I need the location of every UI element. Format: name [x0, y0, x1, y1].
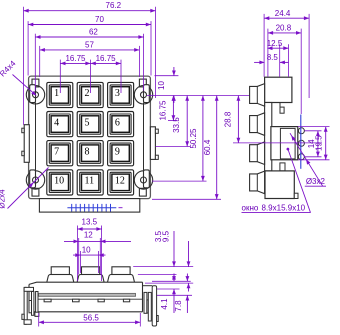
svg-text:16.75: 16.75 [158, 100, 167, 121]
bottom view notch 1 [44, 299, 51, 302]
key 6 [108, 112, 134, 137]
dimension 12 [64, 230, 131, 243]
dimension 16.75 (vertical) [158, 96, 175, 121]
bottom view notch 2 [73, 299, 80, 302]
dimension 20.8 (horizontal) [268, 24, 301, 35]
dimension 50.25 (vertical) [189, 96, 205, 182]
side view small tab below cap [280, 103, 284, 114]
svg-text:50.25: 50.25 [189, 128, 198, 149]
pin-row reference line (c2) [233, 142, 322, 144]
bottom view right step [147, 300, 149, 313]
label diameter 3x2 with leader [290, 133, 326, 186]
bezel-top extension line (right) [155, 75, 179, 77]
svg-text:57: 57 [85, 41, 94, 50]
bottom view left bracket step [29, 301, 32, 313]
label diameter 2x4 [0, 189, 7, 209]
bottom view key cap right [108, 267, 135, 283]
bottom view dimension extension lines [77, 226, 101, 282]
key 7 [47, 141, 73, 166]
side view dimension extension lines (top) [264, 14, 309, 114]
dimension 56.5 (horizontal) [39, 314, 141, 325]
label R4x4 [0, 59, 18, 79]
pin circle 2 [298, 140, 304, 146]
front view top-right tab [139, 79, 146, 87]
bottom view inner band [39, 293, 136, 296]
svg-text:12.5: 12.5 [267, 39, 283, 48]
key 1 [47, 82, 73, 107]
band bottom reference line [157, 294, 192, 296]
dimension 10 (cap top width) [73, 245, 106, 257]
left side connector protrusion [24, 125, 29, 163]
dimension 62 (horizontal) [35, 28, 143, 39]
bottom view notch 4 [123, 299, 129, 302]
front view bezel outline [29, 76, 151, 199]
strip right extension line [139, 313, 141, 327]
svg-text:9.5: 9.5 [161, 230, 170, 242]
svg-text:16.75: 16.75 [96, 54, 117, 63]
bottom view body bottom edge [29, 311, 143, 313]
dimension 13.5 (horizontal) [77, 218, 101, 231]
pin1 reference line [304, 130, 321, 132]
key 12 [108, 170, 134, 195]
svg-text:24.4: 24.4 [275, 9, 291, 18]
bottom view inner line [36, 298, 143, 300]
bracket top reference line [152, 280, 191, 282]
key 10 [47, 170, 73, 195]
dimension 12.5 (horizontal) [267, 39, 289, 50]
right protrusion upper nub [155, 129, 158, 133]
bottom view left bracket top arm [24, 287, 33, 291]
left protrusion upper nub [22, 128, 24, 133]
side view top cap [265, 77, 292, 102]
dimension 8.5 [254, 53, 288, 64]
svg-text:Ø3x2: Ø3x2 [306, 177, 326, 186]
bottom view right bar 1 [144, 292, 147, 313]
bottom view right bracket plate [152, 286, 156, 326]
bottom view key cap left [47, 267, 74, 283]
cap step reference line [138, 273, 177, 275]
pin circle 3 [298, 154, 304, 160]
svg-text:Ø2x4: Ø2x4 [0, 189, 7, 209]
mounting ear top-right [134, 85, 152, 104]
front view bottom-left tab [32, 188, 39, 196]
side view button row2 [250, 113, 265, 136]
row3 reference line (right) [156, 146, 191, 148]
bottom view left bar 2 foot [35, 312, 39, 316]
svg-text:28.8: 28.8 [223, 111, 232, 127]
bottom view left bracket nub [22, 314, 24, 319]
side view connector block [271, 127, 298, 160]
bottom view body right edge [142, 282, 144, 312]
label window 8.9x15.9x10 with leader [242, 148, 311, 213]
bezel-bottom reference line (right) [152, 198, 221, 200]
dimension 76.2 (horizontal) [24, 1, 156, 12]
side view bottom-right tab [294, 193, 298, 198]
front view bottom connector strip [39, 199, 139, 213]
pin centerline (blue) [300, 115, 302, 169]
bottom view top edge [29, 282, 143, 284]
svg-text:16.75: 16.75 [65, 54, 86, 63]
hole-center extension line (row1) [147, 95, 250, 97]
svg-text:19.5: 19.5 [315, 135, 324, 151]
bottom view left bar 1 [32, 292, 34, 316]
dimension 16.75 16.75 (key pitch) [60, 54, 121, 65]
bottom view notch 3 [98, 299, 104, 302]
svg-text:20.8: 20.8 [276, 24, 292, 33]
front view top-left tab [32, 79, 39, 87]
bottom view left bar 2 [36, 292, 38, 317]
bottom view left bracket plate [24, 287, 27, 324]
svg-text:8: 8 [85, 146, 90, 157]
dimension 7.8 [174, 274, 189, 314]
svg-text:окно: окно [242, 203, 259, 212]
dimension 28.8 (vertical) [223, 96, 240, 143]
svg-text:11: 11 [85, 176, 95, 187]
cap top reference line [133, 266, 193, 268]
svg-text:76.2: 76.2 [106, 1, 122, 10]
dimension 57 (horizontal) [40, 41, 140, 52]
svg-text:7: 7 [54, 146, 59, 157]
svg-text:4.1: 4.1 [160, 298, 169, 310]
bottom view bridge to right bracket [143, 285, 153, 287]
side view step between blocks [280, 163, 285, 171]
svg-text:10: 10 [82, 245, 91, 254]
left protrusion lower nub [22, 151, 24, 156]
right side protrusion [150, 127, 155, 160]
svg-text:8.9x15.9x10: 8.9x15.9x10 [262, 203, 306, 212]
svg-text:7.8: 7.8 [174, 300, 183, 312]
svg-text:62: 62 [89, 28, 98, 37]
svg-text:10: 10 [54, 176, 64, 187]
dimension 9.5 [161, 230, 190, 291]
front view dimension extension lines (top) [24, 7, 156, 125]
key 11 [77, 170, 103, 195]
bottom view left bracket bottom arm [24, 320, 31, 325]
svg-text:56.5: 56.5 [83, 314, 99, 323]
key 5 [77, 112, 103, 137]
dimension 4.1 [160, 274, 176, 314]
leader for diameter 2x4 [8, 168, 49, 209]
dimension 70 (horizontal) [28, 15, 151, 26]
svg-text:10: 10 [157, 81, 166, 90]
svg-text:6: 6 [115, 117, 120, 128]
strip left extension line [38, 313, 40, 327]
key 4 [47, 112, 73, 137]
svg-text:12: 12 [84, 230, 93, 239]
front view bottom-right tab [139, 188, 146, 196]
svg-text:5: 5 [85, 117, 90, 128]
mounting ear bottom-left [26, 170, 44, 189]
connector contacts (blue hatch) [67, 204, 122, 212]
bottom view body left edge [28, 284, 30, 311]
bottom view right bar 2 [148, 292, 151, 321]
dimension 14 (vertical) [307, 131, 320, 157]
side view button row3 [250, 142, 265, 165]
dimension 3.5 [154, 230, 176, 281]
left case inner line [35, 103, 37, 172]
case top reference line [145, 282, 193, 284]
key 3 [108, 82, 134, 107]
svg-text:12: 12 [115, 176, 125, 187]
mounting ear bottom-right [134, 170, 152, 189]
dimension 10 (bezel top to row1) [157, 67, 176, 103]
dimension 19.5 (vertical) [315, 127, 328, 160]
mounting ear top-left [26, 85, 44, 104]
dimension 33.5 (vertical) [172, 96, 189, 147]
block bottom reference line [298, 159, 330, 161]
side view window [280, 128, 295, 159]
pin3 reference line [304, 156, 321, 158]
right case inner line [143, 103, 145, 172]
key 2 [77, 82, 103, 107]
block top reference line [298, 126, 330, 128]
side view body slab [265, 103, 272, 171]
svg-text:3: 3 [115, 88, 120, 99]
row4 reference line (right) [152, 180, 207, 182]
right protrusion lower nub [155, 155, 158, 159]
svg-text:2: 2 [85, 88, 90, 99]
body line reference [157, 288, 180, 290]
svg-text:13.5: 13.5 [82, 218, 98, 227]
dimension 24.4 (horizontal) [264, 9, 309, 20]
svg-text:1: 1 [54, 88, 59, 99]
svg-text:60.4: 60.4 [203, 139, 212, 155]
key 9 [108, 141, 134, 166]
leader for R4x4 [13, 75, 37, 96]
side view button row1 [250, 84, 265, 107]
side view bottom block [265, 171, 294, 199]
bottom view right bracket nub [157, 316, 159, 322]
key 8 [77, 141, 103, 166]
svg-text:9: 9 [115, 146, 120, 157]
svg-text:33.5: 33.5 [172, 117, 181, 133]
dimension 60.4 (vertical) [203, 96, 218, 200]
svg-text:70: 70 [95, 15, 104, 24]
svg-text:8.5: 8.5 [267, 53, 279, 62]
row2 reference line (right) [168, 120, 178, 122]
side view button row4 [250, 171, 265, 194]
svg-text:4: 4 [54, 117, 59, 128]
bottom view key cap middle [77, 267, 104, 283]
pin circle 1 [298, 128, 304, 134]
